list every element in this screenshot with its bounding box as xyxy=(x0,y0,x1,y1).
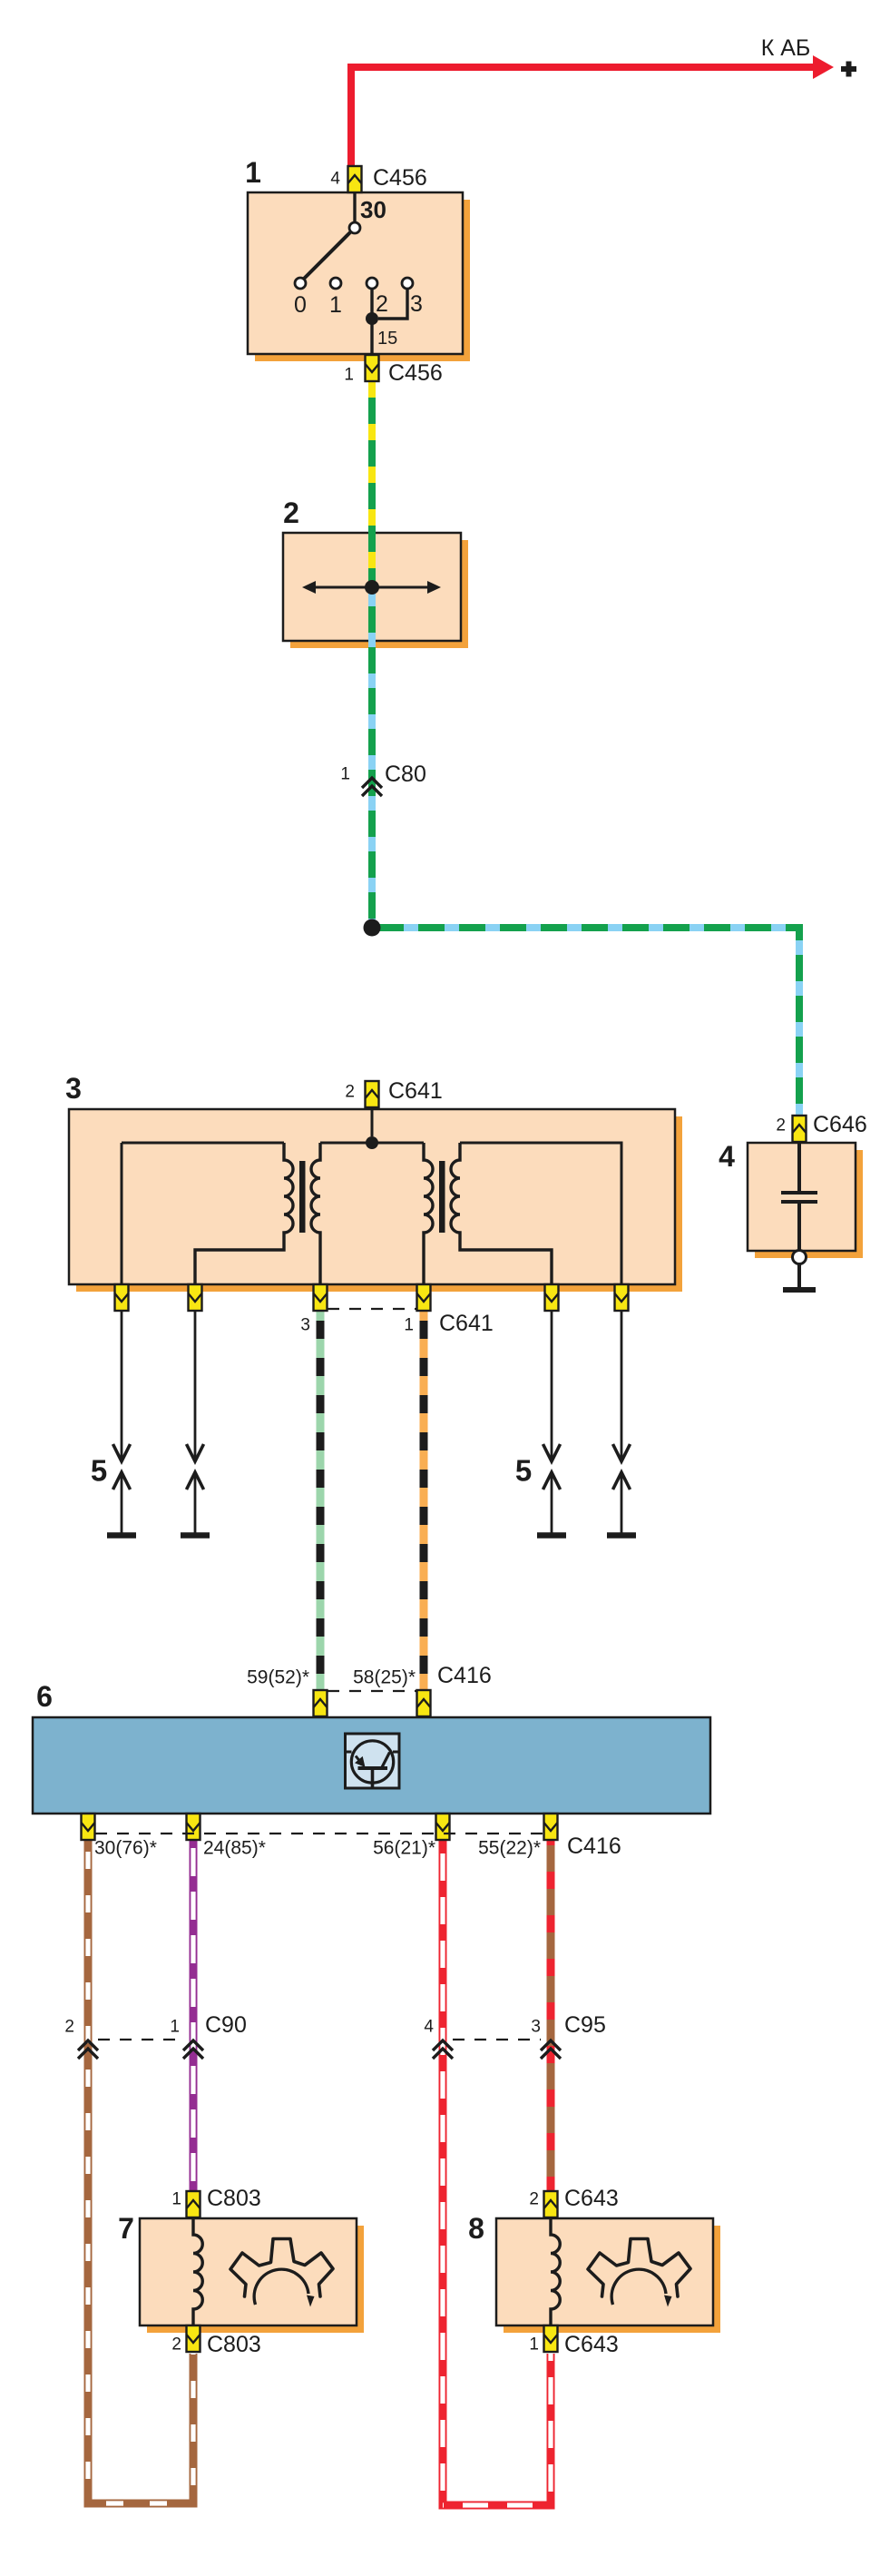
svg-text:30: 30 xyxy=(360,196,386,223)
svg-text:C456: C456 xyxy=(388,360,443,386)
svg-text:6: 6 xyxy=(36,1680,53,1713)
svg-text:2: 2 xyxy=(64,2018,74,2037)
svg-text:3: 3 xyxy=(410,291,423,317)
svg-text:5: 5 xyxy=(91,1454,107,1488)
svg-text:59(52)*: 59(52)* xyxy=(247,1667,309,1688)
svg-text:C643: C643 xyxy=(564,2332,619,2357)
svg-text:К АБ: К АБ xyxy=(761,35,811,61)
svg-text:2: 2 xyxy=(776,1116,786,1136)
svg-text:C803: C803 xyxy=(207,2332,261,2357)
svg-text:C803: C803 xyxy=(207,2186,261,2211)
svg-text:1: 1 xyxy=(329,292,342,318)
svg-text:2: 2 xyxy=(345,1083,355,1102)
svg-text:15: 15 xyxy=(377,329,397,349)
svg-text:5: 5 xyxy=(515,1454,532,1488)
svg-text:2: 2 xyxy=(283,497,299,529)
svg-text:C643: C643 xyxy=(564,2186,619,2211)
svg-text:C416: C416 xyxy=(567,1834,621,1859)
svg-text:4: 4 xyxy=(330,170,340,189)
svg-text:1: 1 xyxy=(529,2335,539,2355)
svg-text:58(25)*: 58(25)* xyxy=(353,1667,416,1688)
svg-text:56(21)*: 56(21)* xyxy=(373,1838,435,1859)
svg-text:3: 3 xyxy=(65,1072,82,1105)
svg-text:C80: C80 xyxy=(385,762,426,787)
svg-text:2: 2 xyxy=(529,2190,539,2209)
svg-text:1: 1 xyxy=(170,2018,180,2037)
svg-text:1: 1 xyxy=(344,366,354,385)
svg-text:1: 1 xyxy=(404,1316,414,1335)
svg-text:1: 1 xyxy=(340,765,350,784)
svg-text:C646: C646 xyxy=(813,1112,867,1137)
svg-text:2: 2 xyxy=(171,2335,181,2355)
svg-text:0: 0 xyxy=(294,292,307,318)
svg-text:30(76)*: 30(76)* xyxy=(94,1838,157,1859)
svg-text:3: 3 xyxy=(300,1316,310,1335)
svg-text:7: 7 xyxy=(118,2212,134,2245)
svg-text:C416: C416 xyxy=(437,1663,492,1688)
svg-text:3: 3 xyxy=(531,2018,541,2037)
svg-text:C641: C641 xyxy=(439,1311,494,1336)
svg-text:4: 4 xyxy=(719,1140,735,1173)
svg-text:C641: C641 xyxy=(388,1078,443,1104)
svg-text:55(22)*: 55(22)* xyxy=(478,1838,541,1859)
svg-text:1: 1 xyxy=(171,2190,181,2209)
svg-text:24(85)*: 24(85)* xyxy=(203,1838,266,1859)
svg-text:C90: C90 xyxy=(205,2012,247,2038)
svg-text:8: 8 xyxy=(468,2212,484,2245)
svg-text:4: 4 xyxy=(424,2018,434,2037)
svg-text:C95: C95 xyxy=(564,2012,606,2038)
svg-text:1: 1 xyxy=(245,156,261,189)
svg-text:C456: C456 xyxy=(373,165,427,191)
svg-text:2: 2 xyxy=(376,291,388,317)
